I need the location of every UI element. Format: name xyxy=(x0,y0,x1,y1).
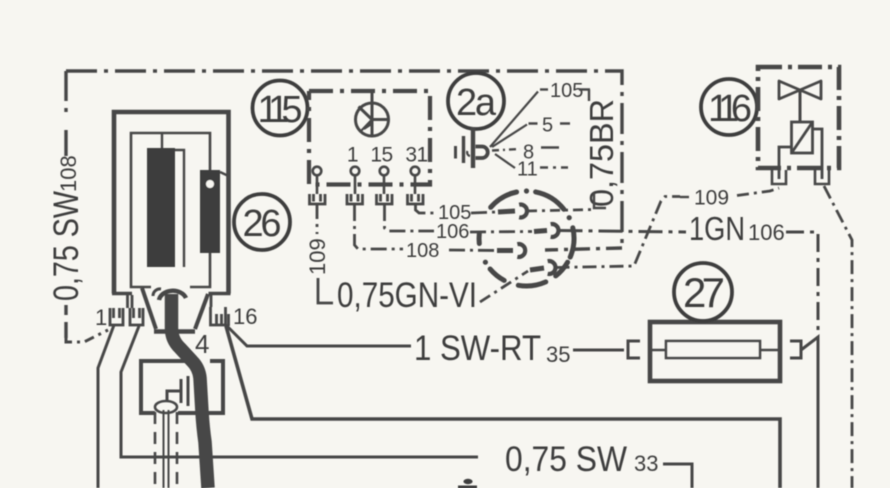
wire pin16 to fuse (1 SW-RT 35) xyxy=(226,325,624,350)
fan line to 5 xyxy=(492,125,527,148)
component 26 coil bar xyxy=(147,133,184,267)
svg-text:0,75GN-VI: 0,75GN-VI xyxy=(337,276,477,315)
ground stub bottom xyxy=(458,479,477,488)
designator circle 26 xyxy=(234,194,290,250)
wire 105 from terminal 31 xyxy=(416,205,436,213)
label 1GN 106 xyxy=(689,210,785,247)
cylinder top ellipse xyxy=(155,401,177,413)
wire 109 distributor to 116 xyxy=(556,197,681,268)
label 1 SW-RT 35 xyxy=(414,329,570,368)
terminal dots xyxy=(313,167,420,194)
valve bowtie in 116 xyxy=(779,81,821,99)
wire after 33 corner down xyxy=(663,464,692,488)
BR L corner to wire 105 xyxy=(594,193,606,208)
svg-text:0,75 SW: 0,75 SW xyxy=(505,440,627,479)
svg-text:105: 105 xyxy=(438,202,471,224)
fuse 27 box xyxy=(650,322,780,381)
svg-text:11: 11 xyxy=(517,159,538,181)
svg-text:106: 106 xyxy=(436,221,469,243)
label 0,75 SW 108 (vertical) xyxy=(47,155,86,301)
label 105 top xyxy=(540,88,548,90)
capacitor box xyxy=(141,361,223,413)
116 right terminal connector xyxy=(815,170,829,184)
svg-text:115: 115 xyxy=(258,89,303,131)
plug contact 106 xyxy=(534,224,558,237)
component 26 right bar with dot xyxy=(200,170,229,253)
svg-text:31: 31 xyxy=(405,144,427,167)
terminal labels 1 15 31 xyxy=(347,144,428,167)
wire 105 horizontal at distributor xyxy=(527,210,594,212)
component 2a designator circle xyxy=(448,73,504,129)
svg-text:33: 33 xyxy=(634,451,658,476)
wire 108 from terminal 1 xyxy=(355,205,404,249)
wire 108 corner to pin 1 xyxy=(66,330,108,342)
capacitor symbol xyxy=(167,376,188,406)
svg-text:108: 108 xyxy=(56,155,81,192)
wire from 116 right terminal down xyxy=(824,186,852,488)
terminal connector 31 xyxy=(408,194,424,204)
svg-text:108: 108 xyxy=(406,240,439,262)
svg-text:4: 4 xyxy=(195,329,209,359)
instrument pointer head xyxy=(364,121,371,130)
svg-text:1GN: 1GN xyxy=(689,210,745,247)
svg-text:106: 106 xyxy=(748,220,785,245)
pin 1 connector a xyxy=(110,308,123,325)
wire 105 label to distributor xyxy=(471,212,496,213)
big box bottom: wire from pin16 down to box xyxy=(226,326,780,488)
svg-text:0,75BR: 0,75BR xyxy=(583,99,620,207)
fan line to 105 xyxy=(490,92,538,148)
wire 108 left border vertical (gap for label) xyxy=(64,71,67,338)
dashes around 8 xyxy=(541,146,559,148)
wire after 1GN label corner down xyxy=(786,232,818,340)
pin 16 connector xyxy=(211,307,229,326)
fuse left connector xyxy=(628,341,640,358)
wire pin1b to 0,75 SW 33 xyxy=(121,326,478,457)
cylinder inner rods xyxy=(164,410,169,488)
wire 109 label to 116 terminal xyxy=(737,188,779,196)
distributor circle dots xyxy=(483,188,572,264)
116 right terminal line xyxy=(813,129,823,179)
fan line to 11 xyxy=(495,154,515,168)
label 0,75 SW 33 xyxy=(505,440,658,479)
spark plug 2a stem xyxy=(471,127,475,168)
wire 108 loom border (top horizontal, right vertical) xyxy=(66,71,622,250)
valve stem xyxy=(799,90,802,122)
wire 108 label to distributor xyxy=(449,249,499,252)
solenoid rect in 116 xyxy=(792,122,813,153)
svg-text:1: 1 xyxy=(347,144,358,167)
instrument symbol in 115 xyxy=(356,91,389,136)
svg-text:1 SW-RT: 1 SW-RT xyxy=(414,329,541,368)
wire fuse right to junction and down xyxy=(801,337,818,488)
fuse right connector xyxy=(790,341,801,358)
label 109 near 116 xyxy=(680,196,689,198)
wire 109 from 115 down xyxy=(316,205,319,234)
wire 106 label to distributor xyxy=(470,230,532,233)
bracket 105 to BR xyxy=(579,90,590,102)
svg-text:105: 105 xyxy=(550,80,583,102)
svg-text:109: 109 xyxy=(694,187,729,210)
svg-text:35: 35 xyxy=(546,342,570,367)
component 26 box xyxy=(114,112,229,294)
component 116 designator circle xyxy=(701,79,757,135)
pin 1 connector b xyxy=(130,308,143,325)
svg-text:2a: 2a xyxy=(456,82,497,124)
fuse element xyxy=(650,341,780,358)
dashes around 5 xyxy=(529,122,571,124)
wire from pin 1 down xyxy=(98,325,114,488)
116 left terminal connector xyxy=(772,170,786,184)
thick wire 4 xyxy=(172,294,209,488)
116 left terminal line xyxy=(779,147,792,179)
wire 109 L corner to GN-VI xyxy=(318,278,333,303)
component 26 inner outline xyxy=(131,133,210,287)
designator circle 27 xyxy=(674,263,732,321)
component 115 box xyxy=(309,91,430,185)
svg-text:26: 26 xyxy=(243,203,282,245)
spark plug 2a electrode bars xyxy=(456,136,471,163)
cylinder dashed sides xyxy=(155,412,177,488)
svg-text:116: 116 xyxy=(708,88,752,130)
component 116 box xyxy=(758,67,839,168)
svg-text:16: 16 xyxy=(233,304,257,329)
wire 106 from terminal 15 xyxy=(385,205,435,231)
terminal connector 1 xyxy=(347,194,363,204)
svg-text:5: 5 xyxy=(542,115,553,137)
distributor plug circle (broken arcs) xyxy=(479,192,574,286)
svg-text:27: 27 xyxy=(683,269,725,316)
terminal connector 15 xyxy=(377,194,393,204)
plug contact 109 xyxy=(530,261,555,274)
dash-dot after 11 xyxy=(540,166,568,168)
wire 1GN 106: distributor to junction xyxy=(559,231,687,233)
spark plug 2a socket xyxy=(476,147,488,159)
plug contact 108 xyxy=(497,244,525,257)
svg-text:1: 1 xyxy=(95,305,107,330)
wire GN-VI to distributor xyxy=(480,271,528,302)
plug contact 105 xyxy=(498,205,527,218)
component 115 designator circle xyxy=(253,81,308,136)
svg-text:15: 15 xyxy=(370,144,392,167)
component 26 funnel xyxy=(142,288,208,332)
fan line to 8 xyxy=(492,149,520,151)
terminal connector 109 xyxy=(310,194,326,204)
svg-text:109: 109 xyxy=(305,238,330,275)
component 26 breaker arc xyxy=(153,289,186,300)
component 26 bottom shelves xyxy=(112,294,231,309)
svg-text:0,75 SW: 0,75 SW xyxy=(47,191,86,301)
